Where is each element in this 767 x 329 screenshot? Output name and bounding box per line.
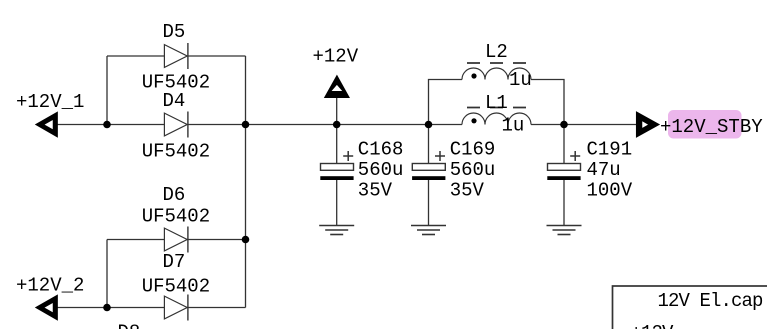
port +12V_1 bbox=[16, 91, 84, 137]
svg-text:35V: 35V bbox=[450, 179, 485, 201]
wire D5 branch left vertical bbox=[106, 56, 108, 125]
inductor L2 bbox=[462, 41, 532, 91]
capacitor C191 bbox=[547, 138, 632, 201]
capacitor C168 bbox=[320, 138, 403, 201]
wire D6 branch horizontal bbox=[107, 239, 246, 241]
svg-text:D6: D6 bbox=[163, 184, 186, 206]
wire C169 bottom lead to ground bbox=[428, 180, 430, 226]
svg-text:47u: 47u bbox=[587, 159, 621, 181]
svg-text:L1: L1 bbox=[485, 92, 508, 114]
svg-text:560u: 560u bbox=[450, 159, 496, 181]
wire C191 top lead bbox=[563, 125, 565, 164]
svg-text:12V El.cap: 12V El.cap bbox=[658, 290, 764, 312]
diode D6 bbox=[142, 184, 210, 252]
svg-text:D7: D7 bbox=[163, 251, 186, 273]
wire L2 left vertical bbox=[429, 80, 463, 125]
svg-text:UF5402: UF5402 bbox=[142, 275, 210, 297]
svg-text:+12V: +12V bbox=[631, 322, 675, 329]
junction node port2 (107,307.5) bbox=[103, 304, 111, 312]
wire C168 bottom lead to ground bbox=[336, 180, 338, 226]
svg-text:+12V_1: +12V_1 bbox=[16, 91, 84, 113]
svg-text:+12V: +12V bbox=[313, 46, 359, 68]
wire D5 branch top bbox=[107, 55, 246, 57]
svg-text:560u: 560u bbox=[358, 159, 404, 181]
wire main rail: D4 cathode to +12V node bbox=[188, 124, 337, 126]
svg-text:C191: C191 bbox=[587, 138, 633, 160]
wire C169 top lead bbox=[428, 125, 430, 164]
svg-text:C168: C168 bbox=[358, 138, 404, 160]
diode D4 bbox=[142, 90, 210, 163]
ground C168 bbox=[319, 226, 354, 235]
wire +12V power stem bbox=[336, 97, 338, 125]
ground C191 bbox=[547, 226, 582, 235]
junction node A (107,124.5) bbox=[103, 121, 111, 129]
junction node C191 (564,124.5) bbox=[560, 121, 568, 129]
wire C168 top lead bbox=[336, 125, 338, 164]
svg-text:UF5402: UF5402 bbox=[142, 141, 210, 163]
svg-text:UF5402: UF5402 bbox=[142, 205, 210, 227]
inductor L1 bbox=[462, 92, 531, 137]
junction node B (245.5,124.5) bbox=[242, 121, 250, 129]
svg-text:C169: C169 bbox=[450, 138, 496, 160]
svg-text:D5: D5 bbox=[163, 21, 186, 43]
junction node C169 (428.5,124.5) bbox=[425, 121, 433, 129]
wire L2 right vertical bbox=[531, 80, 564, 125]
diode D5 bbox=[142, 21, 210, 94]
svg-text:+12V_STBY: +12V_STBY bbox=[660, 116, 763, 138]
svg-text:L2: L2 bbox=[485, 41, 508, 63]
power symbol +12V bbox=[313, 46, 359, 98]
svg-text:1u: 1u bbox=[509, 69, 532, 91]
capacitor C169 bbox=[412, 138, 495, 201]
wire main rail: +12V node to C169 node to L1 bbox=[337, 124, 462, 126]
svg-text:+12V_2: +12V_2 bbox=[16, 275, 84, 297]
diode D7 bbox=[142, 251, 210, 321]
wire main rail left: port1 to D4 anode bbox=[57, 124, 164, 126]
annotation box 12V El.cap bbox=[613, 286, 767, 329]
port +12V_STBY bbox=[636, 110, 763, 139]
svg-text:1u: 1u bbox=[502, 114, 525, 136]
wire C191 bottom lead to ground bbox=[563, 180, 565, 226]
svg-text:D4: D4 bbox=[163, 90, 186, 112]
wire port2 to D7 line bbox=[57, 307, 245, 309]
wire main rail: L1 right to C191 node to port bbox=[531, 124, 637, 126]
port +12V_2 bbox=[16, 275, 84, 321]
svg-text:35V: 35V bbox=[358, 179, 393, 201]
junction node +12V (336.7,124.5) bbox=[333, 121, 341, 129]
junction node D6 right (245.5,239.5) bbox=[242, 236, 250, 244]
ground C169 bbox=[411, 226, 446, 235]
svg-text:100V: 100V bbox=[587, 179, 633, 201]
wire right bus vertical x=245.5 bbox=[245, 56, 247, 308]
wire D6 branch left vertical bbox=[106, 240, 108, 308]
svg-text:D8: D8 bbox=[118, 322, 141, 329]
